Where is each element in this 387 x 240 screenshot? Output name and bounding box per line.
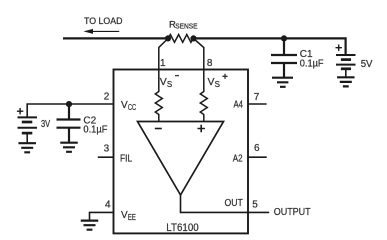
pin 4 VEE wire to ground xyxy=(90,212,114,220)
svg-text:3: 3 xyxy=(104,144,110,155)
junction node right sense xyxy=(190,35,196,41)
battery B1 3V xyxy=(18,117,38,143)
svg-text:FIL: FIL xyxy=(120,153,133,164)
svg-text:7: 7 xyxy=(254,92,260,103)
svg-text:OUTPUT: OUTPUT xyxy=(274,206,311,218)
svg-text:4: 4 xyxy=(105,200,111,211)
pin A2 name label xyxy=(233,153,243,164)
pin 6 number label xyxy=(254,143,260,154)
C1 label xyxy=(300,49,324,69)
pin 2 number label xyxy=(104,92,110,103)
pin 2 VCC wire from 3V rail xyxy=(27,104,113,117)
resistor RSENSE xyxy=(168,35,193,43)
svg-text:A4: A4 xyxy=(234,100,244,111)
3V value label xyxy=(41,119,50,130)
wire kelvin right to pin 8 with internal gain resistor xyxy=(194,39,208,122)
op-amp minus input mark xyxy=(155,128,162,130)
pin A4 name label xyxy=(234,100,244,111)
C2 label xyxy=(83,115,107,135)
pin 1 number label xyxy=(160,58,166,69)
battery 3V plus sign xyxy=(17,108,23,114)
ground at C2 xyxy=(60,143,78,152)
5V value label xyxy=(361,59,373,70)
svg-text:8: 8 xyxy=(207,58,213,69)
IC U1 LT6100 box xyxy=(114,70,249,234)
svg-text:6: 6 xyxy=(254,143,260,154)
wire kelvin left to pin 1 with internal gain resistor xyxy=(155,39,168,122)
ground at 5V battery xyxy=(337,77,355,86)
battery B2 5V xyxy=(336,55,356,77)
junction node C1 tap xyxy=(281,35,287,41)
pin VEE name label xyxy=(121,210,136,222)
pin OUT name label xyxy=(225,198,243,209)
svg-text:S: S xyxy=(167,80,172,89)
svg-text:V: V xyxy=(208,76,215,88)
svg-text:0.1µF: 0.1µF xyxy=(83,125,107,136)
pin 8 number label xyxy=(207,58,213,69)
svg-text:5: 5 xyxy=(252,200,258,211)
pin 6 stub xyxy=(248,156,267,158)
pin VS+ name label xyxy=(208,74,228,90)
pin VCC name label xyxy=(121,100,136,112)
OUTPUT net label xyxy=(274,206,311,218)
capacitor C2 xyxy=(57,104,81,143)
svg-text:3V: 3V xyxy=(41,119,50,130)
svg-text:A2: A2 xyxy=(233,153,243,164)
svg-text:EE: EE xyxy=(128,213,136,222)
svg-text:LT6100: LT6100 xyxy=(166,222,198,234)
battery 5V plus sign xyxy=(336,45,342,51)
junction node C2 tap xyxy=(66,101,72,107)
wire op-amp output to pin 5 xyxy=(181,194,270,212)
pin 7 stub xyxy=(248,103,267,105)
ground at 3V battery xyxy=(18,143,36,152)
svg-text:0.1µF: 0.1µF xyxy=(300,59,324,70)
pin 7 number label xyxy=(254,92,260,103)
RSENSE value label xyxy=(169,19,198,30)
svg-text:V: V xyxy=(160,76,167,88)
svg-text:1: 1 xyxy=(160,58,166,69)
svg-text:TO LOAD: TO LOAD xyxy=(84,16,123,26)
svg-text:2: 2 xyxy=(104,92,110,103)
wire top rail right segment to 5V xyxy=(194,37,346,55)
op-amp plus input mark xyxy=(198,125,205,132)
pin 4 number label xyxy=(105,200,111,211)
pin 3 number label xyxy=(104,144,110,155)
svg-text:5V: 5V xyxy=(361,59,373,70)
pin FIL name label xyxy=(120,153,133,164)
LT6100 part label xyxy=(166,222,198,234)
svg-text:S: S xyxy=(215,80,220,89)
svg-text:OUT: OUT xyxy=(225,198,243,209)
junction node left sense xyxy=(165,35,171,41)
TO LOAD label xyxy=(84,16,123,26)
wire top rail left segment xyxy=(63,37,168,39)
pin 3 FIL stub xyxy=(98,156,114,158)
ground at VEE xyxy=(81,221,99,230)
pin 5 number label xyxy=(252,200,258,211)
op-amp A1 triangle xyxy=(138,122,224,196)
capacitor C1 xyxy=(271,38,297,77)
pin VS- name label xyxy=(160,76,179,90)
svg-text:SENSE: SENSE xyxy=(175,23,198,30)
svg-text:CC: CC xyxy=(128,103,136,112)
ground at C1 xyxy=(272,78,293,87)
arrow to load xyxy=(84,29,120,34)
